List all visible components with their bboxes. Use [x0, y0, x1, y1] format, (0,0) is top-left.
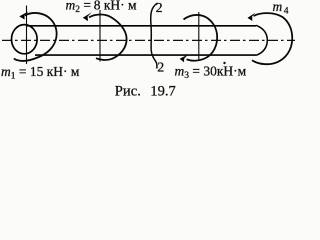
moment arrow m1 arc — [14, 13, 57, 61]
moment arrow m3 arc — [184, 15, 218, 61]
speck dot above H in m3 label — [223, 62, 225, 64]
left end vertical diameter line — [26, 6, 28, 65]
svg-text:2: 2 — [156, 1, 163, 16]
svg-text:m3 = 30кН·м: m3 = 30кН·м — [175, 63, 247, 81]
moment arrow m1 head — [19, 11, 28, 19]
svg-text:m2 = 8 кН· м: m2 = 8 кН· м — [66, 0, 137, 15]
svg-text:Рис.: Рис. — [115, 84, 141, 99]
section line 2-2 wavy cut — [151, 3, 158, 69]
shaft axis center line — [2, 39, 295, 41]
shaft left end face circle — [11, 25, 37, 54]
svg-text:m1 = 15 кН· м: m1 = 15 кН· м — [1, 64, 80, 82]
moment arrow m4 arc — [252, 13, 292, 64]
moment arrow m4 head — [248, 13, 256, 22]
shaft right end cap — [256, 25, 267, 55]
moment arrow m2 head — [83, 12, 92, 21]
section line at m2 — [99, 10, 101, 62]
shaft top line — [27, 25, 256, 27]
shaft bottom line — [35, 54, 256, 56]
moment arrow m3 head — [180, 55, 188, 63]
svg-text:2: 2 — [157, 61, 164, 76]
moment arrow m2 arc — [89, 15, 127, 60]
svg-text:19.7: 19.7 — [150, 84, 176, 99]
section line at m3 — [198, 12, 200, 60]
